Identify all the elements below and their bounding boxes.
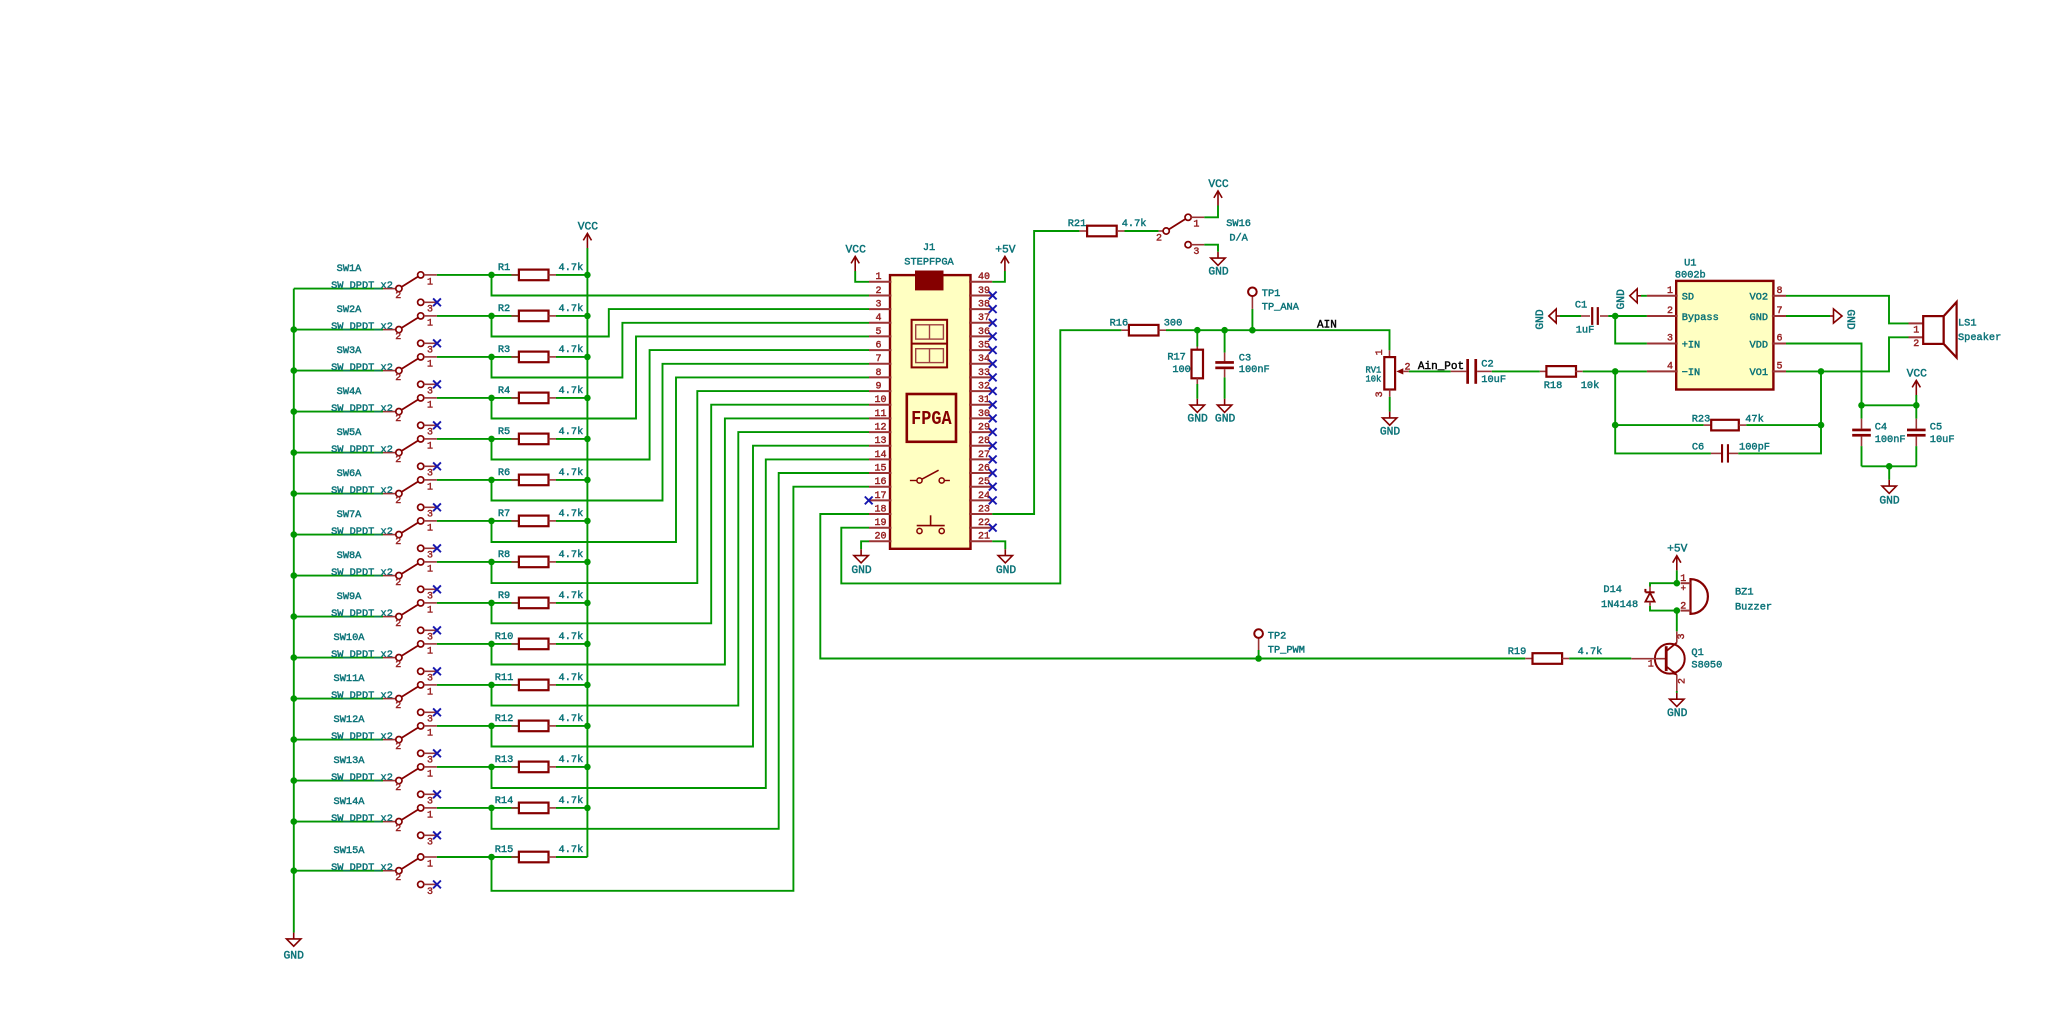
transistor Q1 S8050 xyxy=(1631,631,1722,691)
wire SW6A signal to J1 pin 7 xyxy=(492,364,870,501)
wire J1 pin 23 to R21 xyxy=(992,231,1079,514)
junction C5/VCC top xyxy=(1913,402,1920,409)
wire U1 SD to GND xyxy=(1641,295,1647,297)
wire SW16 pin 3 to GND xyxy=(1204,245,1218,252)
wire SW3A signal to J1 pin 4 xyxy=(492,323,870,378)
svg-text:R6: R6 xyxy=(498,467,510,479)
svg-text:37: 37 xyxy=(978,313,990,324)
switch SW15A xyxy=(331,845,437,898)
svg-text:GND: GND xyxy=(1616,289,1628,310)
resistor R23 xyxy=(1692,414,1764,431)
wire R21 to SW16 xyxy=(1125,230,1159,232)
ground rail wire (left) xyxy=(293,289,295,933)
junction node SW8A/R8 xyxy=(488,559,495,566)
buzzer BZ1 xyxy=(1680,574,1772,614)
potentiometer RV1 Ain_Pot xyxy=(1365,349,1410,397)
svg-text:3: 3 xyxy=(1667,334,1673,345)
wire R18 to U1 -IN xyxy=(1583,370,1647,372)
svg-text:GND: GND xyxy=(1215,413,1236,425)
svg-text:27: 27 xyxy=(978,450,990,461)
junction node SW11A/R11 xyxy=(488,682,495,689)
svg-text:R17: R17 xyxy=(1167,351,1186,363)
wire SW2A signal to J1 pin 3 xyxy=(492,309,870,336)
svg-text:1: 1 xyxy=(1648,660,1654,671)
speaker LS1 xyxy=(1909,302,2002,358)
ground GND (RV1) xyxy=(1380,412,1401,439)
resistor R13 xyxy=(495,754,584,772)
svg-text:8: 8 xyxy=(1776,286,1782,297)
svg-text:SW5A: SW5A xyxy=(337,427,363,439)
svg-text:SW10A: SW10A xyxy=(334,632,366,644)
svg-text:SW_DPDT_x2: SW_DPDT_x2 xyxy=(331,321,393,333)
svg-text:3: 3 xyxy=(427,469,433,480)
svg-text:15: 15 xyxy=(874,463,886,474)
svg-text:VCC: VCC xyxy=(578,221,599,233)
wire R1 to VCC rail xyxy=(556,274,587,276)
junction R11 right at VCC rail xyxy=(584,682,591,689)
wire SW15A pin 2 to ground rail xyxy=(294,870,383,872)
svg-text:1: 1 xyxy=(1667,286,1673,297)
svg-text:R2: R2 xyxy=(498,303,510,315)
svg-text:4.7k: 4.7k xyxy=(559,672,584,684)
svg-text:J1: J1 xyxy=(923,242,935,254)
svg-text:SW2A: SW2A xyxy=(337,304,363,316)
wire SW16 pin 1 to VCC xyxy=(1204,206,1218,218)
svg-text:34: 34 xyxy=(978,354,990,365)
no-connect J1 pin 22 xyxy=(989,524,997,532)
svg-text:Bypass: Bypass xyxy=(1682,312,1719,324)
svg-text:36: 36 xyxy=(978,327,990,338)
svg-text:3: 3 xyxy=(427,592,433,603)
wire to GND (decoupling) xyxy=(1888,466,1890,480)
svg-text:−IN: −IN xyxy=(1682,367,1701,379)
svg-text:24: 24 xyxy=(978,491,990,502)
wire SW4A pin 1 to R4 xyxy=(437,397,519,399)
wire C6 right / VO1 branch xyxy=(1738,371,1821,453)
wire SW9A pin 2 to ground rail xyxy=(294,616,383,618)
junction node SW13A/R13 xyxy=(488,764,495,771)
wire J1 pin 19 to R16 xyxy=(841,330,1121,583)
svg-text:R4: R4 xyxy=(498,385,510,397)
wire SW8A pin 2 to ground rail xyxy=(294,575,383,577)
junction ground rail at SW15A xyxy=(291,867,298,874)
svg-text:3: 3 xyxy=(427,551,433,562)
switch SW12A xyxy=(331,714,437,767)
resistor R5 xyxy=(498,426,583,444)
svg-text:SW_DPDT_x2: SW_DPDT_x2 xyxy=(331,608,393,620)
wire SW15A signal to J1 pin 16 xyxy=(492,487,870,891)
svg-text:SW_DPDT_x2: SW_DPDT_x2 xyxy=(331,649,393,661)
svg-text:SW11A: SW11A xyxy=(334,673,366,685)
svg-text:R12: R12 xyxy=(495,713,514,725)
no-connect on SW1A pin 3 xyxy=(433,298,441,306)
svg-text:6: 6 xyxy=(1776,334,1782,345)
wire J1 pin 21 to GND xyxy=(992,541,1005,549)
svg-text:SW_DPDT_x2: SW_DPDT_x2 xyxy=(331,567,393,579)
svg-text:29: 29 xyxy=(978,423,990,434)
svg-text:C5: C5 xyxy=(1930,421,1942,433)
svg-text:GND: GND xyxy=(1208,267,1229,279)
junction ground rail at SW2A xyxy=(291,326,298,333)
svg-text:2: 2 xyxy=(1156,234,1162,245)
ground GND (U1 pin 7) xyxy=(1830,309,1856,330)
svg-text:SW6A: SW6A xyxy=(337,468,363,480)
svg-text:AIN: AIN xyxy=(1317,319,1337,331)
svg-text:4.7k: 4.7k xyxy=(1578,646,1603,658)
resistor R16 xyxy=(1110,317,1183,335)
no-connect J1 pin 34 xyxy=(989,360,997,368)
no-connect on SW12A pin 3 xyxy=(433,749,441,757)
svg-text:C3: C3 xyxy=(1239,352,1251,364)
svg-text:31: 31 xyxy=(978,395,990,406)
svg-text:Speaker: Speaker xyxy=(1958,332,2001,344)
junction Bypass node xyxy=(1612,313,1619,320)
svg-text:3: 3 xyxy=(427,633,433,644)
wire C1 left to GND xyxy=(1560,315,1581,317)
wire SW5A signal to J1 pin 6 xyxy=(492,350,870,459)
svg-text:10uF: 10uF xyxy=(1481,374,1506,386)
svg-text:13: 13 xyxy=(874,436,886,447)
svg-text:11: 11 xyxy=(874,409,886,420)
no-connect J1 pin 35 xyxy=(989,346,997,354)
svg-text:100: 100 xyxy=(1172,364,1191,376)
junction R3 right at VCC rail xyxy=(584,354,591,361)
svg-text:SW_DPDT_x2: SW_DPDT_x2 xyxy=(331,731,393,743)
junction ground rail at SW14A xyxy=(291,818,298,825)
svg-text:SW_DPDT_x2: SW_DPDT_x2 xyxy=(331,444,393,456)
svg-text:1: 1 xyxy=(427,769,433,780)
svg-text:2: 2 xyxy=(395,373,401,384)
svg-text:30: 30 xyxy=(978,409,990,420)
power VCC (decoupling) xyxy=(1907,368,1928,395)
ground GND (SW16) xyxy=(1208,252,1229,279)
ground GND (R17) xyxy=(1187,399,1208,426)
wire R3 to VCC rail xyxy=(556,356,587,358)
wire SW5A pin 1 to R5 xyxy=(437,438,519,440)
ground GND (U1 SD) xyxy=(1616,289,1641,310)
svg-text:GND: GND xyxy=(1879,496,1900,508)
svg-text:21: 21 xyxy=(978,532,990,543)
wire SW4A signal to J1 pin 5 xyxy=(492,336,870,418)
no-connect J1 pin 37 xyxy=(989,319,997,327)
svg-text:22: 22 xyxy=(978,518,990,529)
svg-text:2: 2 xyxy=(1667,306,1673,317)
svg-text:18: 18 xyxy=(874,504,886,515)
svg-text:R11: R11 xyxy=(495,672,514,684)
switch SW2A xyxy=(331,304,437,357)
svg-text:10uF: 10uF xyxy=(1930,434,1955,446)
svg-text:VCC: VCC xyxy=(1907,368,1928,380)
svg-text:1: 1 xyxy=(427,482,433,493)
wire D14 anode branch xyxy=(1650,583,1677,586)
svg-text:2: 2 xyxy=(1913,339,1919,350)
svg-text:33: 33 xyxy=(978,368,990,379)
svg-text:R8: R8 xyxy=(498,549,510,561)
junction node SW15A/R15 xyxy=(488,854,495,861)
svg-text:20: 20 xyxy=(874,532,886,543)
wire SW6A pin 1 to R6 xyxy=(437,479,519,481)
ground GND (C3) xyxy=(1215,399,1236,426)
wire R6 to VCC rail xyxy=(556,479,587,481)
svg-text:12: 12 xyxy=(874,423,886,434)
wire R23 left xyxy=(1615,424,1704,426)
svg-text:3: 3 xyxy=(427,305,433,316)
svg-text:14: 14 xyxy=(874,450,886,461)
no-connect J1 pin 28 xyxy=(989,442,997,450)
wire RV1 to GND xyxy=(1389,397,1391,412)
no-connect J1 pin 36 xyxy=(989,333,997,341)
svg-text:SD: SD xyxy=(1682,292,1694,304)
wire R15 to VCC rail xyxy=(556,856,587,858)
junction ground rail at SW11A xyxy=(291,695,298,702)
svg-text:9: 9 xyxy=(875,382,881,393)
svg-text:1: 1 xyxy=(1193,220,1199,231)
svg-text:+: + xyxy=(1681,584,1686,594)
svg-text:FPGA: FPGA xyxy=(911,408,952,430)
power +5V (J1 pin 40) xyxy=(995,244,1016,271)
svg-text:S8050: S8050 xyxy=(1691,659,1722,671)
svg-text:2: 2 xyxy=(395,619,401,630)
svg-text:7: 7 xyxy=(1776,306,1782,317)
switch SW1A xyxy=(331,263,437,316)
wire SW12A pin 2 to ground rail xyxy=(294,739,383,741)
no-connect on SW7A pin 3 xyxy=(433,544,441,552)
svg-text:BZ1: BZ1 xyxy=(1735,587,1754,599)
no-connect on SW11A pin 3 xyxy=(433,708,441,716)
ground GND (C1) xyxy=(1535,309,1560,330)
wire SW9A pin 1 to R9 xyxy=(437,602,519,604)
resistor R7 xyxy=(498,508,583,526)
wire SW1A signal to J1 pin 2 xyxy=(492,275,870,296)
svg-text:300: 300 xyxy=(1164,317,1183,329)
junction TP2 xyxy=(1255,655,1262,662)
wire R14 to VCC rail xyxy=(556,807,587,809)
svg-text:SW_DPDT_x2: SW_DPDT_x2 xyxy=(331,485,393,497)
svg-text:2: 2 xyxy=(1678,678,1689,684)
svg-text:SW_DPDT_x2: SW_DPDT_x2 xyxy=(331,362,393,374)
wire SW3A pin 2 to ground rail xyxy=(294,370,383,372)
svg-text:6: 6 xyxy=(875,341,881,352)
svg-text:2: 2 xyxy=(395,291,401,302)
svg-text:TP_ANA: TP_ANA xyxy=(1262,301,1300,313)
wire J1 pin 1 to VCC xyxy=(855,271,869,282)
svg-text:3: 3 xyxy=(427,346,433,357)
wire U1 VDD to decoupling xyxy=(1786,344,1862,406)
svg-text:SW_DPDT_x2: SW_DPDT_x2 xyxy=(331,862,393,874)
resistor R12 xyxy=(495,713,584,731)
no-connect J1 pin 17 xyxy=(865,497,873,505)
svg-text:LS1: LS1 xyxy=(1958,318,1977,330)
ground GND (J1 pin 21) xyxy=(996,549,1017,577)
resistor R10 xyxy=(495,631,584,649)
no-connect J1 pin 33 xyxy=(989,374,997,382)
svg-text:SW9A: SW9A xyxy=(337,591,363,603)
svg-text:32: 32 xyxy=(978,382,990,393)
wire R8 to VCC rail xyxy=(556,561,587,563)
svg-text:4: 4 xyxy=(1667,361,1673,372)
junction node SW3A/R3 xyxy=(488,354,495,361)
svg-text:2: 2 xyxy=(395,414,401,425)
svg-text:1: 1 xyxy=(1375,349,1386,355)
svg-text:SW_DPDT_x2: SW_DPDT_x2 xyxy=(331,813,393,825)
svg-text:GND: GND xyxy=(1535,309,1547,330)
wire SW2A pin 1 to R2 xyxy=(437,315,519,317)
svg-text:SW7A: SW7A xyxy=(337,509,363,521)
svg-text:4.7k: 4.7k xyxy=(559,262,584,274)
svg-text:26: 26 xyxy=(978,463,990,474)
wire SW12A pin 1 to R12 xyxy=(437,725,519,727)
wire D14 cathode branch xyxy=(1650,606,1677,611)
resistor R18 xyxy=(1540,366,1599,392)
junction R10 right at VCC rail xyxy=(584,641,591,648)
svg-text:4.7k: 4.7k xyxy=(559,467,584,479)
svg-text:2: 2 xyxy=(395,742,401,753)
no-connect J1 pin 29 xyxy=(989,428,997,436)
svg-text:2: 2 xyxy=(395,783,401,794)
svg-text:4.7k: 4.7k xyxy=(559,754,584,766)
junction R14 right at VCC rail xyxy=(584,805,591,812)
svg-text:100nF: 100nF xyxy=(1239,364,1270,376)
svg-text:SW_DPDT_x2: SW_DPDT_x2 xyxy=(331,280,393,292)
svg-text:R9: R9 xyxy=(498,590,510,602)
wire SW4A pin 2 to ground rail xyxy=(294,411,383,413)
svg-text:R1: R1 xyxy=(498,262,510,274)
wire J1 pin 18 to PWM line xyxy=(820,514,1525,659)
resistor R4 xyxy=(498,385,583,403)
no-connect on SW13A pin 3 xyxy=(433,790,441,798)
svg-text:2: 2 xyxy=(395,578,401,589)
svg-text:19: 19 xyxy=(874,518,886,529)
wire SW7A pin 1 to R7 xyxy=(437,520,519,522)
junction ground rail at SW13A xyxy=(291,777,298,784)
svg-text:2: 2 xyxy=(395,332,401,343)
junction ground rail at SW4A xyxy=(291,408,298,415)
svg-text:TP2: TP2 xyxy=(1268,631,1287,643)
svg-text:1: 1 xyxy=(427,859,433,870)
svg-text:2: 2 xyxy=(395,660,401,671)
wire SW14A signal to J1 pin 15 xyxy=(492,473,870,829)
svg-text:17: 17 xyxy=(874,491,886,502)
svg-text:C2: C2 xyxy=(1481,359,1493,371)
svg-text:R13: R13 xyxy=(495,754,514,766)
svg-text:R21: R21 xyxy=(1068,218,1087,230)
no-connect J1 pin 30 xyxy=(989,415,997,423)
power VCC (rail top) xyxy=(578,221,599,248)
svg-text:3: 3 xyxy=(427,428,433,439)
svg-text:SW1A: SW1A xyxy=(337,263,363,275)
wire RV1 wiper to C2 xyxy=(1409,370,1451,372)
no-connect on SW6A pin 3 xyxy=(433,503,441,511)
switch SW13A xyxy=(331,755,437,808)
wire Bypass node to +IN xyxy=(1615,316,1647,344)
junction node SW14A/R14 xyxy=(488,805,495,812)
wire Q1 emitter to GND xyxy=(1676,691,1678,693)
svg-text:C4: C4 xyxy=(1875,421,1887,433)
svg-text:4.7k: 4.7k xyxy=(1122,218,1147,230)
junction node SW4A/R4 xyxy=(488,395,495,402)
svg-text:R18: R18 xyxy=(1544,380,1563,392)
test point TP2 TP_PWM xyxy=(1254,629,1305,658)
svg-text:R5: R5 xyxy=(498,426,510,438)
wire R19 to Q1 base xyxy=(1569,658,1631,660)
junction ground rail at SW3A xyxy=(291,367,298,374)
junction ground rail at SW8A xyxy=(291,572,298,579)
VCC rail wire xyxy=(586,248,588,857)
svg-text:4.7k: 4.7k xyxy=(559,795,584,807)
svg-text:25: 25 xyxy=(978,477,990,488)
svg-text:4.7k: 4.7k xyxy=(559,549,584,561)
svg-text:GND: GND xyxy=(1667,708,1688,720)
svg-text:7: 7 xyxy=(875,354,881,365)
junction ground rail at SW5A xyxy=(291,449,298,456)
junction R8 right at VCC rail xyxy=(584,559,591,566)
capacitor C3 xyxy=(1215,330,1269,377)
wire U1 VO2 to speaker pin 1 xyxy=(1786,296,1909,324)
junction node SW2A/R2 xyxy=(488,313,495,320)
svg-text:1: 1 xyxy=(427,400,433,411)
capacitor C5 xyxy=(1907,405,1955,466)
svg-text:2: 2 xyxy=(395,455,401,466)
test point TP1 TP_ANA xyxy=(1248,288,1300,331)
svg-text:4.7k: 4.7k xyxy=(559,385,584,397)
junction R1 right at VCC rail xyxy=(584,272,591,279)
wire R11 to VCC rail xyxy=(556,684,587,686)
svg-text:D14: D14 xyxy=(1603,584,1622,596)
no-connect J1 pin 31 xyxy=(989,401,997,409)
svg-text:1: 1 xyxy=(427,687,433,698)
svg-text:1: 1 xyxy=(427,646,433,657)
svg-text:VDD: VDD xyxy=(1750,339,1769,351)
svg-text:1: 1 xyxy=(1913,325,1919,336)
svg-text:3: 3 xyxy=(875,300,881,311)
svg-text:35: 35 xyxy=(978,341,990,352)
no-connect J1 pin 27 xyxy=(989,456,997,464)
junction R9 right at VCC rail xyxy=(584,600,591,607)
junction R23 left xyxy=(1612,422,1619,429)
svg-text:SW_DPDT_x2: SW_DPDT_x2 xyxy=(331,526,393,538)
svg-text:R15: R15 xyxy=(495,844,514,856)
junction C3 top xyxy=(1221,327,1228,334)
svg-text:3: 3 xyxy=(1677,633,1688,639)
connector J1 STEPFPGA xyxy=(869,242,992,549)
junction decoupling GND xyxy=(1886,463,1893,470)
svg-text:C6: C6 xyxy=(1692,441,1704,453)
svg-text:4.7k: 4.7k xyxy=(559,590,584,602)
resistor R6 xyxy=(498,467,583,485)
svg-text:1: 1 xyxy=(427,605,433,616)
svg-text:39: 39 xyxy=(978,286,990,297)
svg-text:SW_DPDT_x2: SW_DPDT_x2 xyxy=(331,772,393,784)
junction ground rail at SW7A xyxy=(291,531,298,538)
ground GND (Q1) xyxy=(1667,693,1688,720)
wire SW10A pin 2 to ground rail xyxy=(294,657,383,659)
svg-text:3: 3 xyxy=(427,887,433,898)
svg-text:2: 2 xyxy=(395,537,401,548)
junction buzzer pin 2 xyxy=(1674,607,1681,614)
switch SW14A xyxy=(331,796,437,849)
power +5V (buzzer) xyxy=(1667,544,1688,571)
wire SW6A pin 2 to ground rail xyxy=(294,493,383,495)
junction TP1 xyxy=(1249,327,1256,334)
svg-text:+5V: +5V xyxy=(995,244,1016,256)
diode D14 1N4148 xyxy=(1601,584,1655,611)
svg-text:1: 1 xyxy=(427,810,433,821)
svg-text:SW4A: SW4A xyxy=(337,386,363,398)
wire R4 to VCC rail xyxy=(556,397,587,399)
resistor R11 xyxy=(495,672,584,690)
ground GND symbol (left rail) xyxy=(284,933,305,963)
svg-text:23: 23 xyxy=(978,504,990,515)
